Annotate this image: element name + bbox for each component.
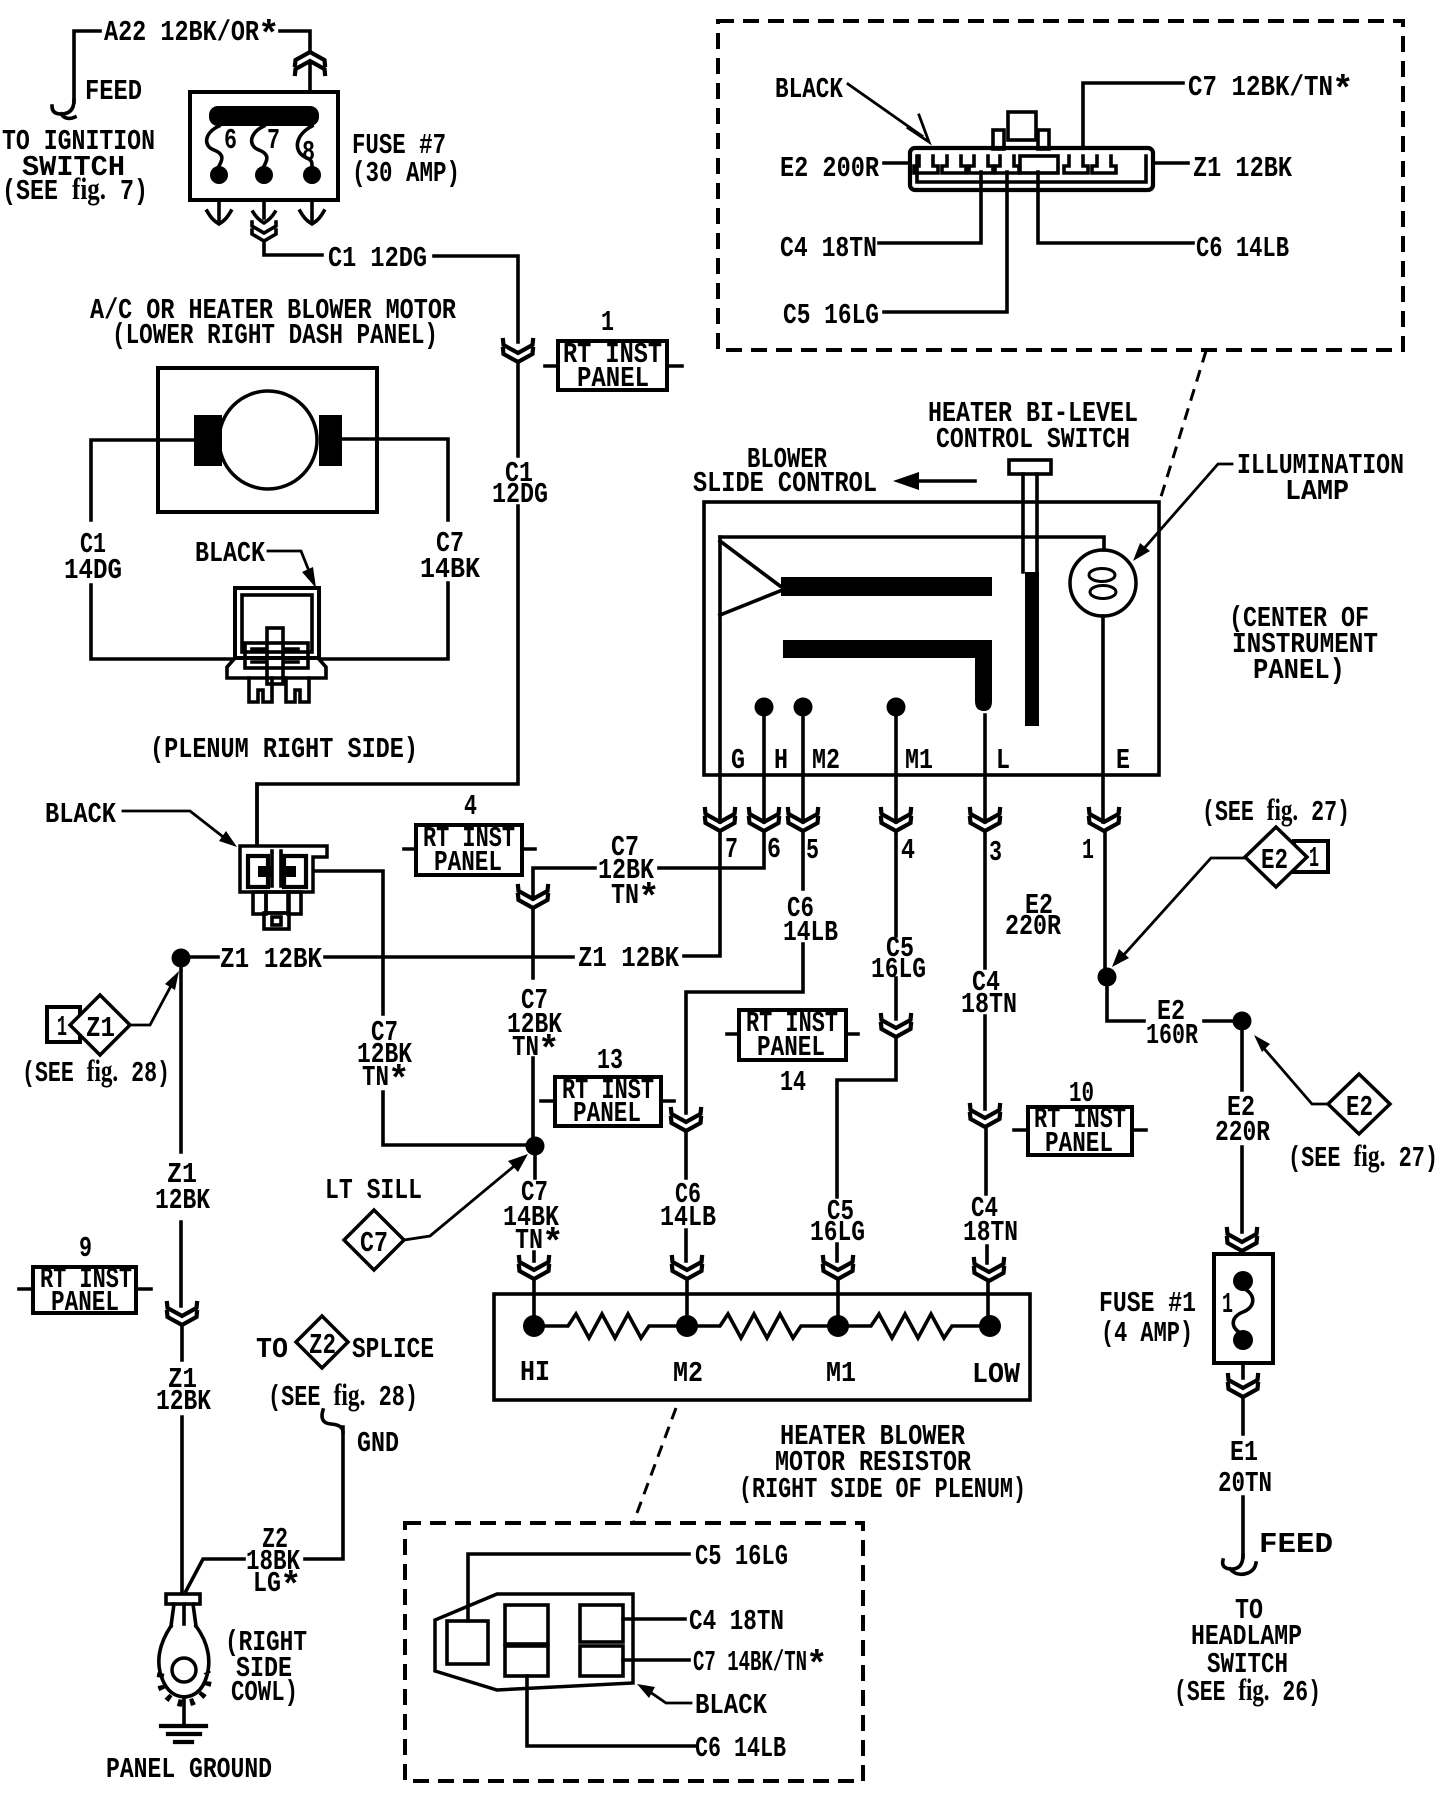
svg-text:M2: M2 — [812, 744, 840, 777]
svg-text:12BK: 12BK — [156, 1385, 211, 1418]
svg-text:LOW: LOW — [972, 1358, 1021, 1391]
connector prongs top — [993, 130, 1004, 149]
bi-level switch stem — [1023, 474, 1037, 572]
resistor R3 — [849, 1314, 979, 1338]
fuse F1 terminal top — [1233, 1271, 1253, 1291]
svg-text:CONTROL SWITCH: CONTROL SWITCH — [936, 423, 1130, 456]
arrow E2-1 to junction — [1120, 858, 1245, 959]
fuse element 7 — [252, 126, 267, 166]
connector outline bottom — [435, 1594, 633, 1690]
svg-text:4: 4 — [464, 790, 477, 823]
junction dot E2 b — [1233, 1012, 1252, 1031]
svg-text:16LG: 16LG — [871, 953, 926, 986]
wire M1 terminal C5 — [837, 716, 896, 1316]
feed hook E1 — [1223, 1555, 1256, 1574]
fuse terminal 7 — [255, 166, 273, 184]
svg-text:4: 4 — [901, 834, 915, 867]
leader arrow black bottom — [650, 1692, 691, 1703]
fuse output wire middle — [262, 200, 266, 218]
arrow Z1 splice to junction — [130, 984, 172, 1025]
svg-text:9: 9 — [79, 1232, 92, 1265]
connector middle pin — [272, 851, 281, 886]
switch S1 box — [704, 502, 1159, 775]
leader to lamp — [1140, 464, 1232, 553]
grommet box RT INST PANEL 4 — [416, 825, 522, 875]
wire M2 terminal C6 — [686, 716, 803, 1316]
svg-text:14BK: 14BK — [420, 553, 481, 586]
grommet box RT INST PANEL 9 — [33, 1267, 136, 1313]
svg-text:BLACK: BLACK — [775, 73, 843, 106]
svg-text:PANEL GROUND: PANEL GROUND — [106, 1753, 272, 1786]
fuse F1 element — [1233, 1288, 1253, 1334]
leader arrow black center — [123, 811, 222, 836]
svg-text:(SEE fig. 27): (SEE fig. 27) — [1288, 1138, 1438, 1175]
svg-text:BLACK: BLACK — [695, 1689, 767, 1722]
svg-text:12DG: 12DG — [492, 478, 548, 511]
resistor R2 — [698, 1314, 827, 1338]
connector slots — [914, 156, 938, 173]
svg-text:FEED: FEED — [85, 75, 142, 108]
connector chevrons C4 inline — [970, 1105, 1000, 1127]
svg-text:7: 7 — [725, 833, 738, 866]
fuse output wire left — [217, 200, 221, 220]
svg-text:TN: TN — [512, 1031, 539, 1064]
terminal M1 resistor — [827, 1315, 849, 1337]
splice symbol E2-1 diamond — [1294, 841, 1328, 872]
svg-text:*: * — [538, 1030, 560, 1071]
svg-text:E2: E2 — [1261, 844, 1288, 877]
motor brush right — [319, 415, 342, 466]
connector pin TL — [505, 1605, 548, 1644]
wire E2 160R — [1107, 987, 1233, 1021]
connector chevrons middle — [252, 222, 276, 233]
terminal dot M1 — [887, 698, 906, 717]
connector chevrons C6 inline — [671, 1109, 701, 1131]
wiper funnel — [720, 537, 780, 615]
svg-text:220R: 220R — [1215, 1116, 1270, 1149]
fuse element 6 — [207, 126, 222, 166]
svg-text:C7 12BK/TN: C7 12BK/TN — [1188, 71, 1333, 104]
wire C7 14BK/TN bottom — [623, 1658, 689, 1662]
arrow E2 to junction b — [1261, 1045, 1328, 1104]
svg-text:(30 AMP): (30 AMP) — [352, 157, 460, 190]
grommet box RT INST PANEL 1 — [558, 341, 667, 390]
motor connector pin cross — [267, 628, 283, 684]
svg-text:7: 7 — [267, 124, 280, 157]
ground lug hole — [172, 1658, 196, 1682]
svg-text:(4 AMP): (4 AMP) — [1101, 1317, 1193, 1350]
svg-text:SPLICE: SPLICE — [352, 1333, 434, 1366]
gnd hook — [322, 1410, 343, 1432]
grommet box RT INST PANEL 14 — [739, 1010, 846, 1060]
splice symbol C7 diamond — [344, 1210, 404, 1270]
wire G terminal — [718, 615, 722, 822]
terminal dot H — [755, 698, 774, 717]
svg-text:3: 3 — [989, 836, 1002, 869]
svg-text:Z2: Z2 — [309, 1329, 336, 1362]
arrow middle — [253, 212, 275, 223]
splice symbol Z1 diamond — [47, 1007, 80, 1042]
grommet box RT INST PANEL 13 — [555, 1077, 661, 1126]
connector chevrons L 3 — [970, 809, 1000, 831]
splice symbol Z2 diamond — [296, 1316, 348, 1368]
connector chevrons M2 5 — [788, 809, 818, 831]
grommet box RT INST PANEL 10 — [1028, 1107, 1132, 1155]
dashed detail box — [718, 21, 1403, 350]
svg-text:E2: E2 — [1346, 1091, 1373, 1124]
arrow out right — [300, 211, 324, 224]
svg-text:20TN: 20TN — [1218, 1467, 1272, 1500]
svg-text:PANEL: PANEL — [757, 1031, 825, 1064]
svg-text:TN: TN — [611, 879, 639, 912]
connector pin BR — [580, 1646, 623, 1676]
svg-text:220R: 220R — [1005, 910, 1061, 943]
svg-text:14DG: 14DG — [64, 554, 122, 587]
svg-text:(RIGHT SIDE OF PLENUM): (RIGHT SIDE OF PLENUM) — [739, 1473, 1026, 1506]
svg-text:160R: 160R — [1146, 1019, 1198, 1052]
svg-text:*: * — [388, 1060, 410, 1101]
arrow slide control — [908, 479, 975, 483]
svg-text:(PLENUM RIGHT SIDE): (PLENUM RIGHT SIDE) — [150, 733, 418, 766]
svg-text:14: 14 — [780, 1066, 806, 1099]
terminal LOW — [979, 1315, 1001, 1337]
resistor block box — [494, 1294, 1030, 1400]
connector chevrons C7 resistor — [519, 1257, 549, 1279]
svg-text:*: * — [1332, 70, 1354, 111]
fuse F7 box — [190, 92, 338, 200]
svg-text:PANEL): PANEL) — [1253, 654, 1345, 687]
svg-text:TN: TN — [515, 1224, 543, 1257]
svg-text:COWL): COWL) — [231, 1676, 298, 1709]
svg-text:*: * — [280, 1566, 302, 1607]
svg-text:14LB: 14LB — [783, 916, 838, 949]
slider contact bar 1 — [781, 577, 992, 596]
ground lug serration — [160, 1672, 208, 1703]
svg-text:G: G — [731, 744, 745, 777]
svg-text:FUSE #1: FUSE #1 — [1099, 1287, 1196, 1320]
svg-text:(LOWER RIGHT DASH PANEL): (LOWER RIGHT DASH PANEL) — [112, 319, 438, 352]
svg-text:1: 1 — [57, 1011, 67, 1044]
svg-text:L: L — [996, 744, 1010, 777]
connector chevrons C5 resistor — [823, 1257, 853, 1279]
svg-text:E1: E1 — [1230, 1436, 1258, 1469]
dashed leader to detail — [634, 1408, 676, 1521]
terminal M2 resistor — [676, 1315, 698, 1337]
motor armature circle — [219, 391, 317, 489]
connector chevrons A22 — [295, 52, 325, 74]
wire C6 14LB top — [1038, 172, 1193, 243]
leader to motor connector — [268, 551, 309, 571]
junction dot Z1 — [172, 949, 191, 968]
svg-text:C5 16LG: C5 16LG — [783, 299, 879, 332]
svg-text:PANEL: PANEL — [51, 1286, 119, 1319]
wire E1 20TN — [1241, 1363, 1245, 1557]
svg-text:Z1 12BK: Z1 12BK — [1193, 152, 1292, 185]
fuse F7 bus bar — [209, 106, 319, 126]
connector pin BL — [505, 1646, 548, 1676]
connector chevrons E1 — [1228, 1375, 1258, 1397]
connector chevrons E2 fuse1 — [1227, 1229, 1257, 1251]
svg-text:M1: M1 — [905, 744, 933, 777]
svg-text:8: 8 — [302, 136, 315, 169]
bi-level switch shaft — [1025, 572, 1039, 726]
fuse F1 terminal bottom — [1233, 1330, 1253, 1350]
svg-text:A22 12BK/OR: A22 12BK/OR — [104, 16, 259, 49]
svg-text:16LG: 16LG — [810, 1216, 865, 1249]
connector chevrons G 7 — [705, 809, 735, 831]
resistor R1 — [545, 1314, 676, 1338]
feed bracket wire — [74, 31, 100, 102]
ground lug eyelet — [166, 1594, 200, 1604]
svg-text:*: * — [542, 1223, 564, 1264]
dashed detail box bottom — [405, 1523, 863, 1781]
wire E terminal E2 — [1103, 616, 1105, 968]
wire E2 220R to fuse 1 — [1240, 1030, 1244, 1254]
connector chevrons C6 resistor — [672, 1257, 702, 1279]
connector pin left — [447, 1621, 488, 1664]
svg-text:PANEL: PANEL — [434, 846, 502, 879]
motor connector body — [235, 588, 319, 658]
svg-text:LG: LG — [253, 1567, 281, 1600]
motor brush left — [194, 415, 222, 466]
wire C5 16LG bottom — [468, 1554, 689, 1621]
svg-text:Z1 12BK: Z1 12BK — [220, 943, 322, 976]
svg-text:(SEE fig. 27): (SEE fig. 27) — [1202, 792, 1350, 829]
connector tab — [1008, 112, 1036, 140]
wire Z2 18BK LG — [186, 1427, 343, 1591]
connector chevrons C7 inline — [518, 886, 548, 908]
slider contact bar 2 L-shape — [783, 640, 992, 711]
terminal dot M2 — [794, 698, 813, 717]
svg-text:E2 200R: E2 200R — [780, 152, 879, 185]
bi-level switch handle — [1009, 460, 1051, 474]
svg-text:1: 1 — [1082, 834, 1094, 867]
wire C6 14LB bottom — [527, 1676, 695, 1746]
svg-text:12BK: 12BK — [155, 1184, 210, 1217]
svg-text:(SEE fig. 28): (SEE fig. 28) — [22, 1053, 170, 1090]
wire C4 18TN bottom — [623, 1617, 685, 1621]
svg-text:LT SILL: LT SILL — [325, 1174, 422, 1207]
wire E2 200R stub — [884, 161, 910, 165]
fuse element 8 — [297, 126, 312, 166]
wire A22 to fuse — [280, 31, 310, 92]
svg-text:18TN: 18TN — [963, 1216, 1018, 1249]
motor M1 housing — [158, 368, 377, 512]
svg-text:TN: TN — [362, 1061, 389, 1094]
svg-text:GND: GND — [357, 1427, 399, 1460]
wire Z1 12BK stub — [1153, 161, 1188, 165]
connector chevrons E 1 — [1089, 809, 1119, 831]
connector pin TR — [580, 1605, 623, 1642]
wire Z1 down to ground — [181, 967, 182, 1593]
svg-text:C6 14LB: C6 14LB — [1196, 232, 1289, 265]
wire Z1 12BK horizontal — [190, 832, 720, 957]
fuse output wire right — [310, 200, 314, 220]
wire C1 12DG — [257, 242, 518, 845]
connector chevrons C1 — [503, 340, 533, 362]
wire C4 18TN top — [879, 172, 981, 243]
fuse F1 box — [1214, 1254, 1273, 1363]
connector chevrons M1 4 — [881, 809, 911, 831]
svg-text:Z1 12BK: Z1 12BK — [578, 942, 679, 975]
motor connector feet — [249, 678, 272, 702]
svg-text:C5 16LG: C5 16LG — [695, 1540, 788, 1573]
fuse terminal 6 — [210, 166, 228, 184]
illumination lamp bulb — [1070, 550, 1136, 616]
svg-text:5: 5 — [806, 834, 819, 867]
svg-text:C4 18TN: C4 18TN — [780, 232, 877, 265]
svg-text:*: * — [258, 15, 280, 56]
wire C7 14BK — [322, 439, 448, 659]
lamp filament — [1089, 569, 1115, 582]
connector chevrons C5 inline — [881, 1015, 911, 1037]
svg-text:C1 12DG: C1 12DG — [328, 242, 427, 275]
feed hook squiggle — [52, 100, 75, 118]
motor connector flange — [227, 658, 326, 678]
svg-text:13: 13 — [597, 1044, 623, 1077]
wire C7 branch from connector — [313, 871, 526, 1145]
connector body center — [240, 846, 327, 892]
connector chevrons C4 resistor — [974, 1259, 1004, 1281]
svg-text:1: 1 — [601, 306, 614, 339]
wire C7 14BK to resistor — [534, 1155, 535, 1316]
svg-text:C4 18TN: C4 18TN — [689, 1605, 784, 1638]
svg-text:Z1: Z1 — [86, 1012, 115, 1045]
svg-text:M1: M1 — [826, 1357, 856, 1390]
connector chevrons H 6 — [749, 809, 779, 831]
leader arrow black — [848, 84, 922, 136]
wire C1 14DG — [91, 440, 232, 659]
splice symbol E2 diamond 2 — [1328, 1074, 1390, 1134]
svg-text:C7 14BK/TN: C7 14BK/TN — [693, 1646, 807, 1679]
svg-text:14LB: 14LB — [660, 1201, 716, 1234]
ground symbol — [161, 1726, 206, 1742]
wire C5 16LG top — [884, 172, 1007, 312]
svg-text:1: 1 — [1309, 842, 1319, 875]
svg-text:SLIDE CONTROL: SLIDE CONTROL — [693, 467, 877, 500]
svg-text:6: 6 — [224, 124, 237, 157]
arrow out left — [207, 211, 231, 224]
svg-text:E: E — [1116, 744, 1130, 777]
wire C7 12BK/TN top — [1083, 83, 1183, 148]
svg-text:C7: C7 — [360, 1227, 388, 1260]
svg-text:FEED: FEED — [1259, 1528, 1333, 1561]
svg-text:*: * — [806, 1645, 828, 1686]
wire H terminal C7 — [533, 716, 764, 1146]
svg-text:18TN: 18TN — [961, 988, 1017, 1021]
fuse terminal 8 — [303, 166, 321, 184]
svg-text:M2: M2 — [673, 1357, 703, 1390]
wire to panel ground — [182, 1697, 186, 1726]
svg-text:(SEE fig. 28): (SEE fig. 28) — [268, 1377, 418, 1414]
connector cells — [248, 856, 268, 887]
resistive track top line — [720, 537, 1104, 550]
connector middle notch — [1020, 156, 1058, 173]
dashed leader to switch — [1160, 351, 1206, 500]
connector chevrons Z1 — [167, 1303, 197, 1325]
connector prongs — [253, 892, 266, 914]
svg-text:H: H — [774, 744, 788, 777]
svg-text:C6 14LB: C6 14LB — [695, 1732, 786, 1765]
junction dot C7 — [526, 1137, 545, 1156]
terminal HI — [523, 1315, 545, 1337]
svg-text:PANEL: PANEL — [573, 1097, 641, 1130]
svg-text:TO: TO — [256, 1333, 288, 1366]
svg-text:LAMP: LAMP — [1285, 475, 1349, 508]
arrow C7 splice to junction — [404, 1167, 513, 1240]
svg-text:(SEE fig. 26): (SEE fig. 26) — [1174, 1672, 1321, 1709]
svg-text:BLACK: BLACK — [195, 537, 265, 570]
svg-text:*: * — [638, 878, 660, 919]
svg-text:6: 6 — [767, 833, 781, 866]
connector body top — [910, 148, 1153, 190]
svg-text:PANEL: PANEL — [1045, 1127, 1113, 1160]
wire C1 into connector — [255, 784, 259, 846]
svg-text:BLACK: BLACK — [45, 798, 116, 831]
svg-text:PANEL: PANEL — [577, 362, 649, 395]
svg-text:HI: HI — [520, 1356, 550, 1389]
wire L terminal C4 — [985, 715, 988, 1316]
svg-text:(SEE fig. 7): (SEE fig. 7) — [2, 171, 148, 208]
junction dot E2 a — [1098, 968, 1117, 987]
svg-text:1: 1 — [1222, 1288, 1233, 1321]
